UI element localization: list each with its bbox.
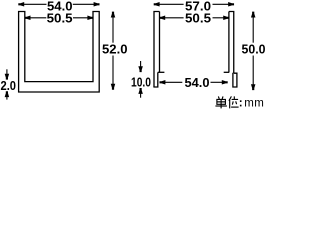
dim 2.0 arrows	[6, 69, 8, 74]
dim 10.0 arrows	[140, 61, 142, 67]
unit note 単位:mm	[215, 96, 238, 108]
svg-text:50.5: 50.5	[47, 10, 73, 25]
dim 50.5 left line	[26, 17, 46, 19]
dim 52.0 vertical line	[112, 13, 114, 43]
dim 50.0 vertical line	[252, 13, 254, 43]
dim 54.0 top-left line	[20, 3, 47, 5]
right rail right ledge	[224, 71, 230, 73]
svg-text:50.0: 50.0	[242, 42, 266, 57]
svg-text:mm: mm	[244, 97, 264, 109]
left channel outline	[19, 12, 100, 93]
right rail left foot	[153, 72, 157, 87]
colon	[240, 100, 242, 102]
dim 50.5 right line	[161, 17, 184, 19]
svg-text:2.0: 2.0	[1, 78, 17, 93]
kanji 位	[229, 96, 232, 108]
dim 57.0 top-right line	[155, 3, 183, 5]
dim 54.0 bottom line	[161, 81, 182, 83]
svg-text:52.0: 52.0	[102, 42, 128, 57]
svg-text:10.0: 10.0	[131, 75, 151, 90]
svg-text:50.5: 50.5	[185, 10, 211, 25]
right rail right wall	[229, 12, 234, 74]
right rail left wall	[154, 12, 160, 88]
right rail right foot	[233, 73, 237, 87]
svg-text:54.0: 54.0	[185, 75, 210, 90]
kanji 単	[218, 96, 223, 99]
right rail left ledge	[158, 71, 165, 73]
